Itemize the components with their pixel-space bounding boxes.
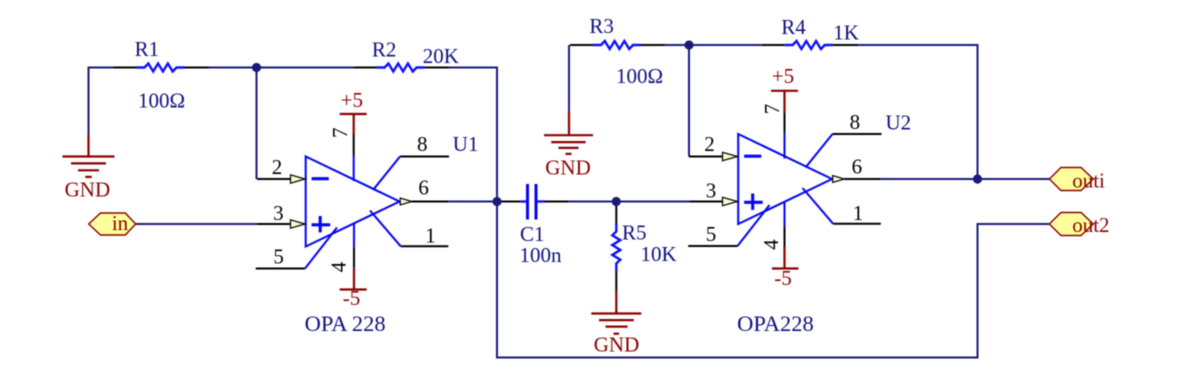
svg-text:R3: R3 <box>589 14 614 38</box>
svg-text:6: 6 <box>418 176 429 200</box>
svg-text:4: 4 <box>759 239 783 250</box>
svg-text:R5: R5 <box>622 221 647 245</box>
svg-text:2: 2 <box>272 155 283 179</box>
svg-text:GND: GND <box>65 178 111 202</box>
svg-text:in: in <box>112 211 129 235</box>
svg-text:R4: R4 <box>781 15 806 39</box>
svg-text:1K: 1K <box>833 20 859 44</box>
svg-text:8: 8 <box>850 110 861 134</box>
svg-text:5: 5 <box>706 222 717 246</box>
svg-text:20K: 20K <box>423 44 459 68</box>
svg-text:8: 8 <box>417 132 428 156</box>
svg-text:U2: U2 <box>886 111 912 135</box>
svg-text:+5: +5 <box>772 64 794 88</box>
svg-text:100Ω: 100Ω <box>138 89 185 113</box>
svg-text:-5: -5 <box>774 266 792 290</box>
svg-text:2: 2 <box>704 132 715 156</box>
svg-text:100n: 100n <box>520 243 563 267</box>
svg-text:4: 4 <box>327 261 351 272</box>
svg-text:100Ω: 100Ω <box>616 64 663 88</box>
svg-text:3: 3 <box>706 178 717 202</box>
svg-text:5: 5 <box>273 244 284 268</box>
svg-text:OPA 228: OPA 228 <box>305 311 386 336</box>
svg-text:outi: outi <box>1072 169 1105 193</box>
svg-text:GND: GND <box>594 333 640 357</box>
svg-text:GND: GND <box>545 156 591 180</box>
svg-text:+5: +5 <box>341 88 363 112</box>
svg-text:R1: R1 <box>135 37 160 61</box>
svg-text:7: 7 <box>328 127 352 138</box>
svg-text:U1: U1 <box>453 132 479 156</box>
svg-text:1: 1 <box>425 224 436 248</box>
svg-text:out2: out2 <box>1072 213 1109 237</box>
svg-text:3: 3 <box>273 201 284 225</box>
svg-text:10K: 10K <box>641 242 677 266</box>
svg-text:-5: -5 <box>343 286 361 310</box>
svg-text:OPA228: OPA228 <box>737 311 814 336</box>
svg-text:7: 7 <box>760 104 784 115</box>
svg-text:R2: R2 <box>372 38 397 62</box>
svg-text:6: 6 <box>852 155 863 179</box>
svg-text:1: 1 <box>853 201 864 225</box>
